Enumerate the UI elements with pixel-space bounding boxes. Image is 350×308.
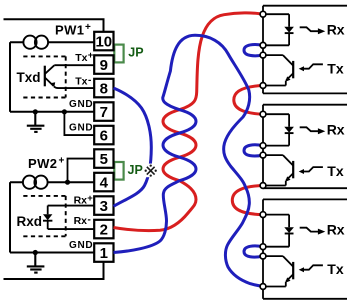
junction dot	[62, 109, 67, 114]
svg-text:-: -	[88, 75, 91, 86]
svg-text:Rx: Rx	[74, 195, 88, 207]
wire Tx- to terminal 8	[54, 87, 94, 89]
slave block 2 outline	[263, 105, 347, 189]
svg-text:+: +	[88, 50, 94, 61]
node slave3 terminals	[260, 212, 266, 290]
svg-text:+: +	[87, 193, 93, 204]
node slave1 terminals	[260, 11, 266, 88]
terminal 10	[94, 32, 113, 51]
wire riser to terminal 5	[68, 159, 95, 183]
svg-text:PW1: PW1	[55, 23, 84, 38]
junction dot	[65, 180, 70, 185]
diode slave1 Rx	[284, 27, 294, 33]
svg-text:5: 5	[100, 151, 108, 168]
wire terminal 1 bottom return	[4, 262, 104, 279]
ground symbol upper	[27, 112, 45, 132]
wire PW2+ row	[10, 181, 94, 183]
transistor Txd phototransistor	[45, 65, 55, 87]
svg-text:7: 7	[100, 104, 108, 121]
svg-text:10: 10	[95, 33, 112, 50]
wire Tx+ to terminal 9	[54, 64, 94, 66]
junction dot	[33, 109, 38, 114]
svg-text:Tx: Tx	[327, 163, 344, 179]
wire red pair: terminal 2 to twist to slave1 top	[114, 13, 261, 231]
svg-text:1: 1	[100, 245, 108, 262]
svg-text:GND: GND	[69, 123, 93, 134]
signal arrow Tx 3	[299, 265, 323, 272]
slave 3 Rx LED box	[263, 215, 289, 247]
svg-text:Rx: Rx	[327, 21, 345, 37]
svg-text:9: 9	[100, 57, 108, 74]
wire Rx- to terminal 2	[48, 228, 94, 230]
terminal 9	[94, 55, 113, 74]
svg-text:Tx: Tx	[75, 76, 87, 88]
terminal 4	[94, 173, 113, 192]
signal arrow Rx 2	[300, 127, 326, 134]
wire blue terminal 8 to terminal 3	[114, 88, 152, 206]
signal arrow Rx 1	[300, 27, 326, 34]
signal arrow Tx 2	[299, 167, 323, 174]
wire GND to terminal 6	[64, 112, 94, 135]
terminal 5	[94, 149, 113, 168]
terminal 1	[94, 243, 113, 262]
svg-text:Tx: Tx	[327, 61, 344, 77]
wire blue loop slave3	[244, 246, 263, 257]
reference mark	[145, 164, 158, 178]
diode slave2 Rx	[284, 127, 294, 133]
diode slave3 Rx	[284, 227, 294, 233]
terminal 6	[94, 126, 113, 145]
Rxd dashed box	[23, 196, 65, 236]
terminal 7	[94, 102, 113, 121]
svg-text:Rx: Rx	[327, 121, 345, 137]
svg-text:PW2: PW2	[28, 156, 57, 171]
node slave2 terminals	[260, 111, 266, 188]
slave block 3 outline	[263, 199, 347, 298]
svg-text:-: -	[88, 214, 91, 225]
svg-text:8: 8	[100, 80, 108, 97]
svg-text:+: +	[59, 156, 65, 167]
slave block 1 outline	[263, 6, 347, 94]
wire PW1+ row	[10, 41, 94, 43]
svg-text:4: 4	[100, 174, 109, 191]
svg-text:GND: GND	[69, 240, 93, 251]
terminal 3	[94, 196, 113, 215]
terminal 8	[94, 79, 113, 98]
svg-text:2: 2	[100, 221, 108, 238]
transistor slave1 Tx	[263, 55, 293, 85]
transistor slave3 Tx	[263, 256, 293, 286]
svg-text:Rxd: Rxd	[17, 214, 43, 229]
svg-text:+: +	[85, 22, 91, 33]
slave 1 Rx LED box	[263, 14, 289, 45]
svg-text:GND: GND	[69, 99, 93, 110]
wire blue loop slave1	[244, 45, 263, 56]
transformer T1	[23, 36, 48, 49]
wire left rail lower	[9, 182, 11, 252]
wire blue pair: terminal 1 to twist to slave3 bottom	[114, 35, 263, 286]
svg-text:6: 6	[100, 127, 108, 144]
svg-text:JP: JP	[128, 46, 143, 60]
transistor slave2 Tx	[263, 155, 293, 185]
svg-text:Txd: Txd	[17, 70, 41, 85]
jumper JP2 bracket	[114, 162, 123, 180]
wire left rail upper	[9, 42, 11, 112]
svg-text:Tx: Tx	[327, 261, 344, 277]
transformer T2	[23, 176, 48, 189]
wire red link slave1 bottom to slave2 top	[234, 86, 263, 115]
signal arrow Rx 3	[300, 228, 326, 235]
terminal 2	[94, 220, 113, 239]
wire blue loop slave2	[244, 145, 263, 156]
wire GND rail lower	[10, 252, 94, 254]
svg-text:Rx: Rx	[327, 222, 345, 238]
wire PW1 top supply rail	[4, 19, 104, 32]
wire Rx+ to terminal 3	[48, 205, 94, 207]
svg-text:Rx: Rx	[74, 215, 88, 227]
wire GND rail upper	[10, 111, 94, 113]
junction dot	[33, 250, 38, 255]
jumper JP1 bracket	[114, 45, 123, 63]
svg-text:3: 3	[100, 198, 108, 215]
signal arrow Tx 1	[299, 64, 323, 71]
svg-text:JP: JP	[128, 163, 143, 177]
ground symbol lower	[27, 253, 45, 273]
diode Rxd LED	[43, 206, 52, 230]
wire red link slave2 bottom to slave3 top	[232, 186, 263, 215]
slave 2 Rx LED box	[263, 114, 289, 145]
Txd dashed box	[23, 56, 65, 97]
svg-text:Tx: Tx	[75, 52, 87, 64]
